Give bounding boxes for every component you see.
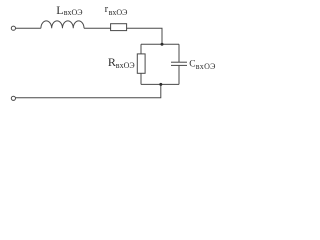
svg-text:вхОЭ: вхОЭ xyxy=(196,62,216,71)
svg-text:вхОЭ: вхОЭ xyxy=(64,8,83,17)
svg-text:вхОЭ: вхОЭ xyxy=(109,8,128,17)
svg-text:вхОЭ: вхОЭ xyxy=(116,61,135,70)
svg-text:L: L xyxy=(56,3,63,17)
svg-text:C: C xyxy=(189,59,195,69)
svg-text:R: R xyxy=(108,55,116,69)
